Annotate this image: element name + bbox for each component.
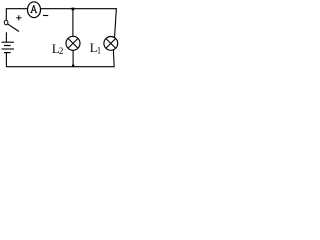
wire L1 branch upper (slanted) — [115, 8, 117, 38]
label - (ammeter negative terminal) — [43, 15, 48, 17]
wire battery to bottom-left corner — [5, 53, 7, 68]
ammeter A1 body — [28, 2, 41, 18]
battery cell1 short plate — [4, 45, 11, 47]
battery cell2 long plate — [2, 48, 15, 50]
lamp L1 filament X — [106, 39, 116, 49]
wire top-right (ammeter to top-right corner) — [40, 8, 116, 10]
ammeter A1 letter A — [30, 5, 37, 13]
wire top-left (top-left corner to ammeter) — [6, 8, 28, 10]
battery cell2 short plate (-) — [4, 52, 11, 54]
lamp L2 filament X — [68, 38, 78, 48]
battery cell1 long plate (+) — [2, 41, 15, 43]
wire L2 branch lower — [72, 50, 74, 66]
wire switch to battery — [5, 32, 7, 42]
junction node bottom (L2 branch tap) — [72, 65, 74, 67]
wire bottom — [6, 66, 114, 68]
svg-text:2: 2 — [59, 46, 63, 56]
wire L2 branch upper — [72, 9, 74, 37]
lamp L2 body — [66, 36, 80, 50]
switch S1 hinge terminal — [4, 20, 8, 25]
wire L1 branch lower (slanted) — [112, 50, 115, 67]
lamp L1 body — [104, 37, 118, 51]
svg-text:1: 1 — [97, 45, 101, 55]
wire left upper (corner down to switch) — [5, 8, 7, 20]
label + (ammeter positive terminal) — [16, 15, 21, 20]
switch S1 blade (open) — [8, 24, 19, 32]
junction node top (L2 branch tap) — [72, 8, 75, 11]
